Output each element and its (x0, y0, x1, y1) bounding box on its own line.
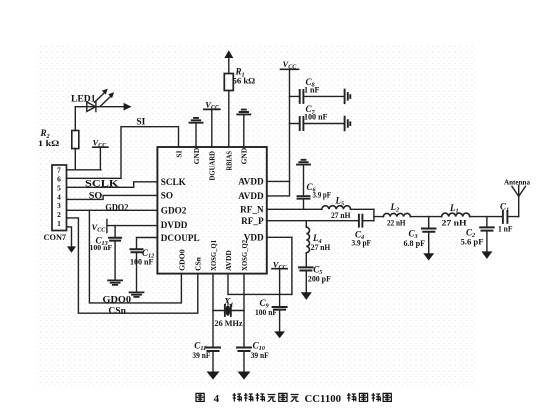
crystal X1 symbol (225, 305, 231, 316)
ground earth below C12 (130, 292, 144, 297)
chip pin names top (rotated) (174, 147, 248, 180)
wire match box right vertical (373, 209, 375, 220)
wire C2 to ground arrow (486, 231, 488, 252)
capacitor C1 plates (series) (503, 211, 508, 223)
svg-text:4: 4 (214, 393, 220, 405)
svg-text:LED1: LED1 (71, 94, 96, 104)
wire C6 to ground above (303, 165, 305, 196)
capacitor C8 plates (300, 90, 304, 103)
svg-text:AVDD: AVDD (224, 250, 233, 271)
capacitor C6 stem below (303, 199, 305, 209)
connector CON7 body (52, 165, 67, 231)
wire RF_P line (267, 220, 374, 222)
capacitor C3 stem (428, 217, 430, 229)
wire chip GND top pin 2 stub (243, 115, 245, 147)
svg-text:1 nF: 1 nF (498, 224, 513, 233)
wire C11 to ground arrow (212, 351, 214, 372)
power Vcc bar left of R2 (93, 146, 108, 148)
wire SCLK net: chip SCLK to CON7 pin5 (67, 182, 158, 188)
svg-text:4: 4 (57, 192, 61, 201)
svg-text:6.8 pF: 6.8 pF (404, 239, 426, 248)
wire XOSG_Q2 stub down (243, 274, 245, 348)
svg-text:XOSG_Q1: XOSG_Q1 (209, 240, 218, 271)
ground arrow below C2 (481, 251, 492, 259)
svg-text:7: 7 (57, 166, 61, 175)
wire DGUARD stub to Vcc (211, 110, 213, 147)
wire C10 to ground arrow (243, 351, 245, 372)
svg-text:200 pF: 200 pF (308, 274, 331, 283)
wire CON7 pin1 to ground arrow (67, 227, 72, 247)
svg-text:Antenna: Antenna (504, 177, 530, 186)
wire XOSG_Q1 stub down (212, 274, 214, 348)
wire C13 stem from DVDD net (114, 226, 116, 238)
svg-text:GND: GND (192, 147, 201, 164)
ground symbol above C6 (297, 160, 310, 165)
svg-text:DGUARD: DGUARD (208, 150, 217, 180)
svg-text:100 nF: 100 nF (90, 243, 113, 252)
wire main output line after match box (374, 216, 519, 218)
svg-text:SCLK: SCLK (85, 180, 120, 190)
wire C3 to ground arrow (428, 232, 430, 254)
svg-text:RF_N: RF_N (240, 205, 264, 215)
wire C13 to ground (114, 241, 116, 280)
capacitor C7 branch wire (290, 123, 345, 125)
svg-text:CSn: CSn (194, 256, 203, 271)
chip pin names bottom (rotated) (177, 240, 249, 271)
inductor L2 coil (383, 213, 410, 216)
ground arrow below C11 (207, 372, 220, 380)
ground arrow below C10 (238, 372, 251, 380)
svg-text:AVDD: AVDD (238, 191, 264, 201)
svg-text:5.6 pF: 5.6 pF (461, 238, 484, 247)
svg-text:56 kΩ: 56 kΩ (233, 77, 256, 86)
svg-text:26 MHz: 26 MHz (215, 319, 243, 328)
svg-text:27 nH: 27 nH (331, 211, 351, 220)
svg-text:AVDD: AVDD (238, 177, 264, 187)
ground earth below C13 (108, 280, 122, 285)
power Vcc bar above DGUARD (204, 108, 220, 110)
svg-text:SI: SI (136, 116, 146, 126)
svg-text:GND: GND (240, 147, 249, 164)
IC U1 CC1100 body (157, 147, 266, 274)
power Vcc bar top right (281, 68, 299, 70)
svg-text:1 nF: 1 nF (304, 85, 320, 94)
svg-text:5: 5 (57, 183, 61, 192)
resistor R2 body (72, 131, 79, 149)
resistor R1 body (224, 74, 233, 91)
wire LED output arrowhead (124, 103, 132, 111)
svg-text:3: 3 (57, 201, 61, 210)
svg-text:RBIAS: RBIAS (225, 151, 234, 171)
inductor L4 coil vertical (306, 227, 309, 253)
wire SO net: chip SO to CON7 pin4 (67, 195, 158, 199)
svg-text:100 nF: 100 nF (255, 308, 277, 317)
capacitor C9 plates (273, 307, 287, 310)
capacitor C13 plates (109, 238, 121, 241)
svg-text:DVDD: DVDD (161, 220, 188, 230)
diode LED1 symbol (75, 106, 124, 108)
wire CON7 pin7 to Vcc and R2 (67, 148, 101, 170)
svg-text:27 nH: 27 nH (442, 219, 468, 228)
svg-text:GDO2: GDO2 (161, 206, 187, 216)
svg-text:1: 1 (57, 219, 61, 228)
chassis ground right of C8 (345, 90, 351, 104)
ground symbol above GND pin1 (190, 118, 203, 123)
svg-text:SI: SI (174, 150, 183, 157)
svg-text:1 kΩ: 1 kΩ (38, 139, 60, 148)
wire L4 stem from RF_P (305, 221, 307, 228)
wire C9 to ground arrow (279, 310, 281, 332)
wire GDO0 net: GDO2 line branch to chip GDO0 (bottom) (89, 210, 181, 303)
capacitor C7 plates (300, 117, 304, 130)
capacitor C10 plates (237, 348, 251, 352)
chip pin names right (238, 177, 264, 243)
svg-text:GDO0: GDO0 (103, 296, 132, 306)
svg-text:3.9 pF: 3.9 pF (313, 191, 332, 200)
wire GDO2 net: chip GDO2 to CON7 pin3 (67, 209, 158, 211)
svg-text:DCOUPL: DCOUPL (161, 233, 200, 243)
wire chip GND top pin 1 stub (195, 123, 197, 147)
inductor L1 coil (442, 213, 470, 216)
capacitor C4 plates (series) (359, 215, 363, 227)
wire L4 to C5 (305, 253, 307, 267)
capacitor C3 plates (422, 229, 436, 232)
chip pin names left (161, 177, 200, 243)
wire antenna riser (518, 196, 520, 216)
CON7 pin numbers (57, 166, 61, 228)
wire AVDD right pin2 and Vcc riser (267, 69, 290, 195)
ground arrow below C5 (301, 292, 312, 300)
ground arrow below pin1 (67, 246, 76, 253)
svg-text:SCLK: SCLK (161, 177, 187, 187)
svg-text:CC1100: CC1100 (305, 393, 342, 405)
wire RF_N line (267, 208, 374, 210)
svg-text:27 nH: 27 nH (311, 243, 331, 252)
capacitor C11 plates (206, 348, 220, 352)
svg-text:22 nH: 22 nH (387, 219, 406, 228)
capacitor C8 branch wire (290, 95, 345, 97)
svg-text:39 nF: 39 nF (192, 351, 210, 360)
capacitor C2 plates (480, 227, 494, 230)
svg-text:SO: SO (89, 191, 103, 201)
svg-text:CON7: CON7 (44, 233, 67, 242)
ground symbol above GND pin2 (237, 110, 250, 115)
svg-text:100 nF: 100 nF (130, 257, 153, 266)
wire chip bottom AVDD stub and rail (228, 274, 292, 295)
svg-text:XOSG_Q2: XOSG_Q2 (240, 240, 249, 271)
ground arrow below C3 (423, 253, 434, 260)
LED1 emission arrows (95, 93, 105, 103)
svg-text:6: 6 (57, 175, 61, 184)
svg-text:GDO0: GDO0 (177, 249, 186, 271)
capacitor C12 plates (131, 249, 143, 252)
wire RBLAS stub to R1 (228, 91, 230, 148)
caption: 图4 射频收发单元 CC1100 的电路图 (196, 393, 391, 405)
ground arrow below C9 (274, 331, 285, 338)
wire DCOUPL net: chip to C12 (137, 238, 158, 249)
wire VDD pin to rail (267, 237, 292, 294)
svg-text:3.9 pF: 3.9 pF (352, 239, 372, 248)
wire C5 to ground arrow (305, 271, 307, 293)
chassis ground right of C7 (345, 117, 351, 131)
svg-text:39 nF: 39 nF (251, 351, 269, 360)
wire DVDD net: Vcc tick to chip DVDD (107, 220, 157, 233)
wire R1 top with up arrow (228, 58, 230, 74)
capacitor C2 stem (486, 217, 488, 227)
svg-text:100 nF: 100 nF (304, 112, 328, 121)
svg-text:RF_P: RF_P (241, 216, 264, 226)
wire AVDD right pin1 (267, 180, 290, 182)
svg-text:SO: SO (161, 191, 173, 201)
inductor L5 coil (322, 206, 351, 210)
capacitor C6 plates (298, 196, 310, 199)
capacitor C9 stem (279, 294, 281, 306)
wire SI net: chip SI pin to CON7 pin6 (67, 127, 179, 179)
wire R2 top to LED anode (74, 107, 76, 131)
wire CON7 pin2 to chip CSn (bottom) (67, 218, 198, 313)
capacitor C5 plates (299, 267, 313, 270)
power Vcc stem mid bottom (279, 269, 281, 295)
svg-text:2: 2 (57, 210, 61, 219)
wire crystal X1 line (213, 310, 244, 312)
wire C12 to ground (136, 253, 138, 292)
svg-text:GDO2: GDO2 (105, 203, 128, 213)
antenna symbol (512, 185, 526, 196)
svg-text:CSn: CSn (108, 307, 126, 317)
